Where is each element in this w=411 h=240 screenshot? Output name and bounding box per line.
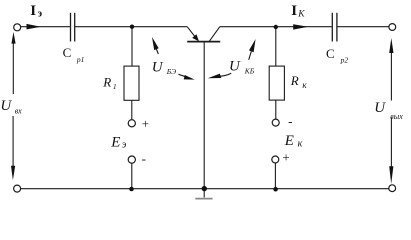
svg-text:+: +	[142, 116, 149, 131]
junction node bottom-right	[273, 187, 278, 192]
transistor collector lead	[209, 27, 220, 42]
svg-text:вых: вых	[390, 112, 403, 121]
battery Ee plus terminal	[128, 120, 135, 127]
svg-text:1: 1	[113, 82, 117, 91]
svg-text:к: к	[302, 80, 307, 90]
junction node bottom-left	[129, 187, 134, 192]
svg-text:р2: р2	[340, 55, 349, 64]
transistor emitter arrowhead	[192, 34, 199, 41]
transistor base lead	[203, 42, 205, 188]
Uvx arrowhead up	[11, 32, 15, 44]
svg-text:р1: р1	[76, 55, 85, 64]
svg-text:вх: вх	[15, 106, 22, 115]
Ube arrowhead upper-left	[152, 37, 159, 50]
svg-text:К: К	[297, 10, 305, 20]
svg-text:C: C	[326, 46, 335, 61]
svg-text:БЭ: БЭ	[166, 67, 176, 76]
bottom wire	[21, 188, 389, 190]
right rail: junction to Rk	[275, 27, 277, 66]
svg-text:R: R	[290, 73, 299, 88]
Uvyx arrowhead down	[389, 166, 393, 184]
Ukb arrow tail lower	[221, 73, 232, 76]
svg-text:I: I	[30, 3, 36, 19]
battery Ek plus terminal	[272, 156, 279, 163]
svg-text:э: э	[38, 9, 42, 20]
Ube arrowhead lower-right	[184, 75, 195, 80]
svg-text:U: U	[229, 58, 241, 74]
Ube arrow tail lower	[179, 74, 186, 76]
svg-text:к: к	[298, 139, 303, 150]
capacitor Cp1	[71, 13, 75, 42]
junction node top-right	[274, 25, 278, 29]
Uvx annotation line lower	[12, 116, 14, 167]
Ukb arrow tail upper	[249, 51, 252, 60]
Ukb arrowhead lower-left	[208, 74, 222, 79]
svg-text:R: R	[102, 74, 111, 89]
wire Ek to bottom	[274, 163, 276, 189]
wire Rk to Ek	[275, 100, 277, 119]
output terminal bottom-right	[389, 185, 396, 192]
junction node base-bottom	[202, 186, 207, 191]
wire top-left	[21, 26, 70, 28]
Uvx arrowhead down	[11, 166, 15, 180]
ground stub	[203, 191, 205, 198]
Ukb arrowhead upper-right	[249, 39, 256, 52]
svg-text:э: э	[122, 139, 127, 150]
svg-text:E: E	[110, 135, 120, 151]
resistor Rk	[269, 66, 284, 100]
output terminal top-right	[389, 24, 396, 31]
ground bar	[195, 198, 212, 200]
transistor VT base bar	[187, 41, 220, 43]
svg-text:U: U	[0, 98, 12, 114]
left rail: junction to R1	[131, 27, 133, 66]
wire R1 to Ee	[131, 100, 133, 119]
svg-text:E: E	[284, 133, 294, 149]
wire Cp1 to emitter	[75, 26, 187, 28]
Uvyx arrowhead up	[389, 38, 393, 53]
transistor emitter lead	[187, 27, 196, 39]
wire Ee to bottom	[131, 163, 133, 189]
input terminal top-left	[14, 24, 21, 31]
battery Ee minus terminal	[128, 156, 135, 163]
svg-text:U: U	[374, 100, 386, 116]
svg-text:-: -	[288, 114, 292, 129]
svg-text:U: U	[152, 60, 164, 76]
svg-text:+: +	[282, 150, 289, 165]
svg-text:C: C	[63, 45, 72, 60]
current arrow Ik	[293, 24, 308, 29]
current arrow Ie	[27, 24, 41, 30]
Ube arrow tail upper	[156, 49, 158, 54]
battery Ek minus terminal	[272, 119, 279, 126]
wire top-right	[220, 26, 332, 28]
junction node top-left	[130, 25, 134, 29]
svg-text:КБ: КБ	[244, 67, 255, 76]
svg-text:I: I	[291, 3, 297, 19]
Uvyx annotation line upper	[390, 51, 392, 101]
input terminal bottom-left	[14, 185, 21, 192]
Uvyx annotation line lower	[390, 117, 392, 167]
svg-text:-: -	[142, 151, 146, 166]
capacitor Cp2	[332, 13, 337, 42]
resistor R1	[124, 66, 139, 100]
Uvx annotation line upper	[12, 43, 14, 95]
wire Cp2 to output	[338, 26, 389, 28]
